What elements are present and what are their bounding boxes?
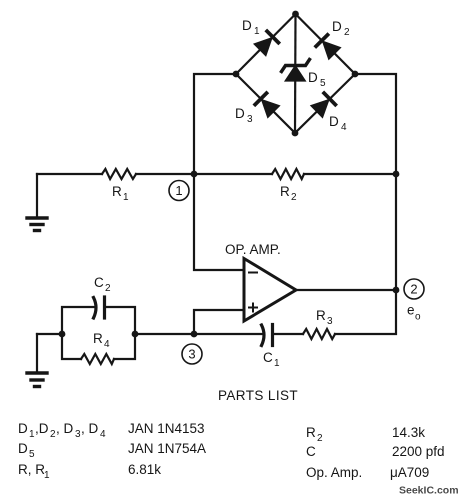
wire: bridge bottom-right edge: [295, 74, 355, 133]
svg-text:JAN 1N754A: JAN 1N754A: [128, 441, 206, 456]
wire: op-amp output to node 2: [296, 289, 396, 291]
ground (left, at input): [27, 174, 47, 231]
svg-text:4: 4: [100, 429, 106, 440]
wire: bridge top-left edge: [236, 14, 296, 74]
svg-text:14.3k: 14.3k: [392, 425, 425, 440]
svg-text:R, R: R, R: [18, 462, 45, 477]
wire: node1 to R2 and to right rail: [194, 173, 272, 175]
node circle 2: [404, 279, 424, 299]
svg-text:C: C: [263, 350, 273, 365]
svg-text:1: 1: [274, 358, 280, 369]
junction node dot: node 3: [191, 331, 198, 338]
svg-text:R: R: [93, 331, 103, 346]
svg-text:4: 4: [104, 339, 110, 350]
wire: C1 to R3: [273, 333, 304, 335]
svg-text:2: 2: [344, 27, 350, 38]
svg-text:OP. AMP.: OP. AMP.: [225, 242, 281, 257]
junction node dot: bridge bottom: [292, 130, 299, 137]
junction node dot: bridge left: [233, 71, 240, 78]
junction node dot: R4/C2 right: [132, 331, 139, 338]
svg-text:D: D: [235, 106, 245, 121]
junction node dot: node 1: [191, 171, 198, 178]
capacitor C1: [262, 325, 273, 346]
svg-text:1: 1: [254, 26, 260, 37]
svg-text:R: R: [280, 184, 290, 199]
svg-text:3: 3: [327, 316, 333, 327]
wire: bottom feedback rail left (node3 to C1): [135, 333, 264, 335]
svg-text:D: D: [332, 19, 342, 34]
junction node dot: bridge top: [292, 11, 299, 18]
svg-text:1: 1: [175, 183, 182, 198]
wire: bridge top-right edge: [296, 14, 356, 74]
svg-text:SeekIC.com: SeekIC.com: [399, 485, 459, 497]
op-amp U1 triangle: [244, 259, 296, 322]
svg-text:e: e: [407, 303, 415, 318]
svg-text:C: C: [306, 444, 316, 459]
wire: zener branch vertical: [294, 14, 297, 133]
svg-text:3: 3: [188, 347, 195, 362]
svg-text:5: 5: [320, 78, 326, 89]
diode D2: [316, 35, 340, 59]
wire: C2 top branch: [62, 307, 95, 334]
svg-text:, D: , D: [56, 421, 74, 436]
wire: left input horizontal (ground corner to node 1): [37, 173, 102, 175]
svg-text:D: D: [18, 441, 28, 456]
svg-text:R: R: [112, 184, 122, 199]
svg-text:2200 pfd: 2200 pfd: [392, 444, 445, 459]
junction node dot: R4/C2 left: [59, 331, 66, 338]
resistor R2: [272, 169, 304, 179]
junction node dot: node 2 output: [393, 287, 400, 294]
node circle 1: [169, 181, 189, 201]
svg-text:,D: ,D: [35, 421, 49, 436]
svg-text:D: D: [242, 18, 252, 33]
node circle 3: [182, 344, 202, 364]
diode D3: [255, 93, 278, 116]
svg-text:o: o: [415, 312, 421, 323]
svg-text:6.81k: 6.81k: [128, 462, 161, 477]
wire: left rail vertical (bridge to op-amp minus): [194, 74, 244, 270]
svg-text:R: R: [316, 308, 326, 323]
svg-text:PARTS LIST: PARTS LIST: [218, 388, 298, 403]
wire: op-amp plus input from node 3: [194, 310, 244, 334]
diode D4: [312, 93, 336, 116]
svg-text:Op. Amp.: Op. Amp.: [306, 465, 362, 480]
svg-text:R: R: [306, 425, 316, 440]
svg-text:μA709: μA709: [390, 465, 429, 480]
svg-text:2: 2: [291, 192, 297, 203]
op-amp plus sign: [249, 304, 257, 312]
resistor R3: [303, 329, 335, 339]
wire: ground corner to R4/C2 left node: [37, 333, 62, 335]
capacitor C2: [94, 297, 105, 318]
svg-text:, D: , D: [81, 421, 99, 436]
wire: bridge bottom-left edge: [236, 74, 295, 133]
svg-text:C: C: [94, 275, 104, 290]
svg-text:3: 3: [247, 114, 253, 125]
ground (lower left): [27, 334, 47, 387]
wire: R3 to node 2 riser: [335, 290, 396, 334]
wire: right rail vertical (bridge to node 2): [355, 74, 396, 290]
op-amp minus sign: [249, 272, 257, 274]
svg-text:2: 2: [410, 282, 417, 297]
svg-text:JAN 1N4153: JAN 1N4153: [128, 421, 205, 436]
resistor R1: [102, 169, 136, 179]
junction node dot: bridge right: [352, 71, 359, 78]
junction node dot: R2 right / right rail: [393, 171, 400, 178]
zener diode D5: [282, 60, 310, 81]
svg-text:D: D: [308, 70, 318, 85]
wire: R4 bottom branch: [62, 334, 81, 359]
svg-text:D: D: [329, 114, 339, 129]
svg-text:2: 2: [317, 433, 323, 444]
svg-text:1: 1: [123, 192, 129, 203]
resistor R4: [81, 354, 114, 364]
svg-text:1: 1: [44, 470, 50, 481]
svg-text:5: 5: [29, 449, 35, 460]
svg-text:D: D: [18, 421, 28, 436]
diode D1: [255, 31, 278, 55]
svg-text:2: 2: [105, 283, 111, 294]
svg-text:4: 4: [341, 122, 347, 133]
